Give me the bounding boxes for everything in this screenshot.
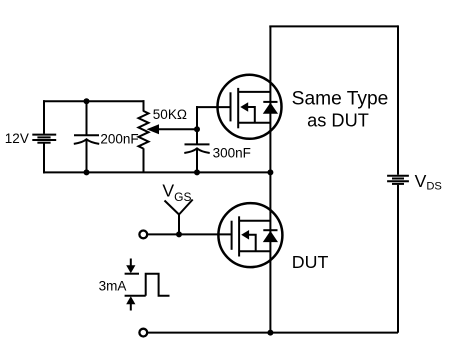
node dot: C2 bottom at rail <box>194 169 200 175</box>
wire: gate feed to upper MOSFET <box>196 106 231 108</box>
svg-text:200nF: 200nF <box>100 132 138 147</box>
potentiometer R1 lead bottom <box>143 148 145 172</box>
wire: right vertical lower (VDS battery to bottom rail) <box>397 185 399 333</box>
MOSFET Q1 (Same Type as DUT) <box>218 75 282 139</box>
Q2 source L-link <box>248 235 255 251</box>
capacitor C1 (200nF) <box>74 135 99 144</box>
wire: VGS input to Q2 gate <box>148 233 232 235</box>
3mA up arrow shaft <box>130 302 132 310</box>
Q1 drain bar <box>238 91 270 93</box>
svg-text:50KΩ: 50KΩ <box>153 107 187 122</box>
Q2 body diode cathode bar <box>263 229 277 231</box>
capacitor C2 (300nF) <box>184 144 209 153</box>
Q2 substrate arrow <box>241 230 249 240</box>
Q2 gate plate <box>231 221 233 250</box>
Q2 body diode triangle <box>263 231 278 242</box>
svg-text:VDS: VDS <box>415 171 442 193</box>
3mA down arrow shaft <box>130 259 132 268</box>
3mA top reference bar <box>125 273 139 275</box>
VGS probe left arm <box>165 201 180 215</box>
battery V1 lead bottom <box>43 144 45 174</box>
node dot: gate-drive rail meets main bus <box>267 169 273 175</box>
battery V1 (12V) <box>32 135 56 143</box>
Q1 body diode triangle <box>263 103 278 114</box>
battery V2 (VDS) <box>387 176 409 184</box>
node dot: VGS probe junction <box>176 231 182 237</box>
Q2 drain bar <box>239 220 270 222</box>
Q1 body diode cathode bar <box>263 101 277 103</box>
terminal: source return (open circle) <box>139 329 147 337</box>
svg-text:VGS: VGS <box>162 180 191 204</box>
svg-text:Same Type: Same Type <box>292 88 389 109</box>
capacitor C1 lead top <box>86 101 88 135</box>
wire: node A up to gate elbow <box>196 128 198 144</box>
current pulse waveform <box>146 274 170 296</box>
svg-text:300nF: 300nF <box>213 145 251 160</box>
Q1 gate plate <box>230 92 232 121</box>
wire: right vertical upper (to VDS battery) <box>397 25 399 174</box>
capacitor C1 lead bottom <box>86 141 88 173</box>
Q1 source L-link <box>248 107 255 123</box>
potentiometer R1 wiper arrow <box>147 124 160 134</box>
3mA bottom reference bar / pulse base left <box>125 295 146 297</box>
node A dot (wiper / C2 junction) <box>194 126 200 132</box>
VGS probe right arm <box>179 200 193 215</box>
potentiometer R1 lead top <box>143 100 145 111</box>
Q1 substrate arrow <box>240 102 248 112</box>
wire: main vertical drain-source bus <box>269 26 271 332</box>
VGS probe stem <box>178 215 180 235</box>
Q1 source bar <box>238 122 270 124</box>
wire: bottom rail of gate-drive section <box>43 171 270 173</box>
wire: top rail <box>269 25 398 27</box>
battery V1 lead top <box>43 100 45 134</box>
svg-text:DUT: DUT <box>292 252 329 272</box>
capacitor C2 lead bottom <box>196 150 198 173</box>
Q2 source bar <box>239 250 270 252</box>
MOSFET Q2 (DUT) <box>218 203 282 267</box>
wire: C2 top lead up <box>196 106 198 129</box>
3mA up arrowhead <box>126 296 135 304</box>
wire: wiper to node A <box>157 128 197 130</box>
Q1 body circle <box>218 75 282 139</box>
wire: top-left rail from battery to potentiometer <box>43 100 145 102</box>
3mA down arrowhead <box>126 265 135 273</box>
Q2 body circle <box>218 203 282 267</box>
potentiometer R1 body (zigzag) <box>139 111 149 149</box>
Q1 channel plate <box>237 88 239 128</box>
svg-text:3mA: 3mA <box>99 278 127 293</box>
svg-text:12V: 12V <box>5 131 29 146</box>
terminal: VGS input (open circle) <box>139 231 147 239</box>
node dot: main bus meets bottom rail <box>267 330 273 336</box>
wire: bottom rail <box>148 332 398 334</box>
Q2 channel plate <box>238 216 240 256</box>
svg-text:as DUT: as DUT <box>307 110 369 130</box>
node dot: C1 bottom <box>84 169 90 175</box>
node dot: C1 top <box>84 98 90 104</box>
wire: right vertical bottom corner stub <box>397 332 399 333</box>
